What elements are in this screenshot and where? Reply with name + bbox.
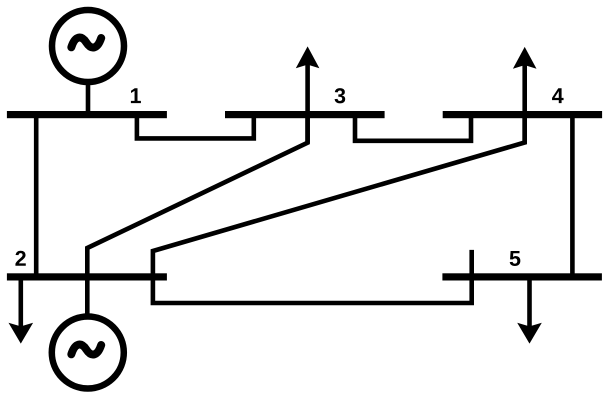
load arrow at bus 5 (down) — [517, 277, 542, 344]
label 4 — [552, 88, 564, 103]
label 3 — [335, 88, 346, 103]
wire line 2-3 with generator G2 lead — [87, 116, 307, 318]
bus 3 — [225, 111, 385, 118]
wire line 2-4 continuing as line 2-5 — [153, 116, 525, 303]
wire line 3-4 — [355, 114, 471, 141]
generator G1 — [52, 10, 124, 82]
generator G2 — [52, 317, 124, 389]
bus 5 — [442, 273, 602, 280]
wire line 4-5 — [570, 114, 575, 277]
bus 2 — [7, 273, 167, 280]
wire line 1-2 — [34, 114, 39, 277]
load arrow at bus 2 (down) — [9, 277, 34, 344]
load arrow at bus 3 (up) — [296, 46, 320, 142]
wire line 1-3 — [137, 114, 254, 138]
wire G1 to bus 1 — [86, 79, 91, 115]
bus 1 — [7, 111, 167, 118]
bus 4 — [443, 111, 602, 118]
label 2 — [15, 251, 25, 266]
label 5 — [510, 251, 521, 266]
load arrow at bus 4 (up) — [513, 47, 537, 143]
label 1 — [131, 88, 141, 103]
